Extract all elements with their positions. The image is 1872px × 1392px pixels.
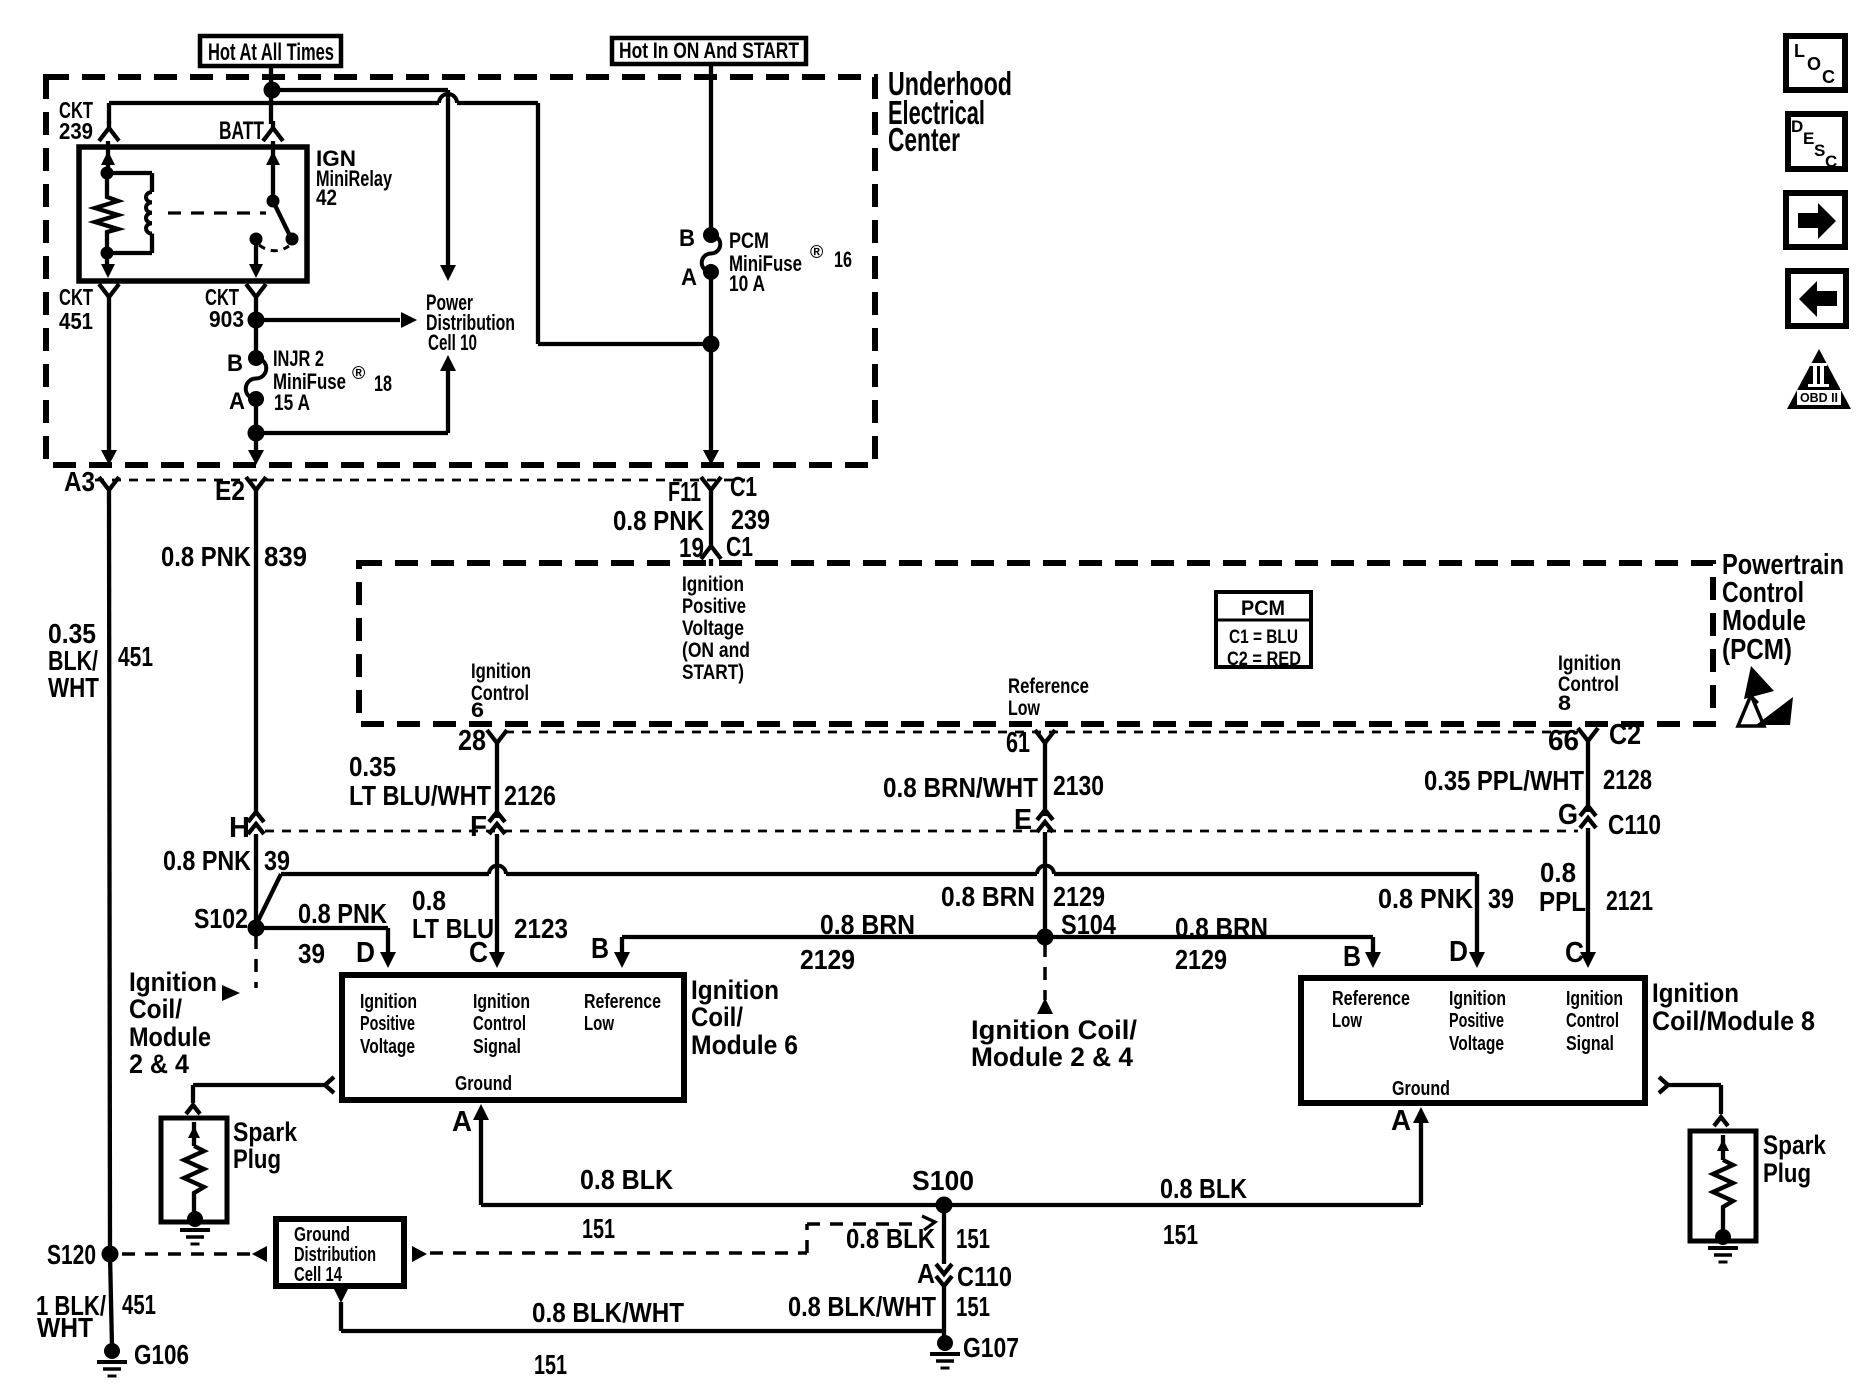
label: Ignition Coil/ Module 6 bbox=[691, 975, 798, 1060]
svg-text:B: B bbox=[1343, 941, 1361, 973]
connector: C110 pin H bbox=[229, 812, 264, 844]
wire: 0.8 PNK 39 (S102 to module 8 pin D) bbox=[256, 866, 1514, 969]
svg-text:LT BLU/WHT: LT BLU/WHT bbox=[349, 780, 491, 811]
wire: CKT 239 feed from PCM fuse node bbox=[109, 94, 706, 344]
icon: LOC bbox=[1786, 36, 1845, 90]
icon: DESC bbox=[1788, 114, 1845, 171]
svg-text:Ignition: Ignition bbox=[682, 573, 744, 596]
svg-text:Ignition: Ignition bbox=[1558, 652, 1621, 675]
wire: feed to power distribution (down arrow) bbox=[272, 90, 456, 281]
wire: 0.35 PPL/WHT 2128 bbox=[1424, 748, 1652, 812]
icon: ESD warning symbol bbox=[1738, 666, 1793, 726]
label: Ignition Coil/Module 8 bbox=[1652, 978, 1815, 1036]
wire: hot-at-all-times feed to BATT bbox=[269, 66, 273, 124]
connector: CKT 451 bbox=[59, 284, 119, 334]
svg-text:D: D bbox=[356, 937, 375, 969]
svg-text:C1 = BLU: C1 = BLU bbox=[1229, 627, 1298, 648]
svg-text:E: E bbox=[1803, 129, 1814, 148]
svg-text:F11: F11 bbox=[668, 476, 701, 507]
svg-text:0.8: 0.8 bbox=[412, 885, 446, 916]
svg-text:Positive: Positive bbox=[1449, 1010, 1504, 1032]
svg-text:C110: C110 bbox=[1608, 809, 1661, 840]
wire: S120 dashed to ground distribution bbox=[122, 1246, 267, 1262]
wire: CKT 903 to fuse bbox=[254, 304, 258, 352]
svg-text:PCM: PCM bbox=[729, 228, 769, 253]
svg-text:START): START) bbox=[682, 661, 744, 684]
svg-text:Low: Low bbox=[1008, 697, 1040, 720]
frame: Hot At All Times label box bbox=[200, 36, 341, 66]
junction: coil bottom node bbox=[101, 247, 114, 260]
svg-text:Hot In ON And START: Hot In ON And START bbox=[619, 38, 799, 63]
junction: PCM fuse output node bbox=[703, 336, 720, 353]
wire: ground bus A to A (0.8 BLK 151) bbox=[452, 1104, 1429, 1250]
connector: E2 bbox=[215, 475, 266, 506]
svg-text:451: 451 bbox=[59, 308, 93, 334]
svg-text:E: E bbox=[1014, 804, 1032, 836]
svg-text:Module: Module bbox=[129, 1022, 211, 1052]
connector: F11 C1 bbox=[668, 471, 757, 507]
stub: S102 to ignition coil module 2 and 4 bbox=[129, 936, 256, 1079]
svg-text:Control: Control bbox=[473, 1013, 526, 1035]
svg-text:G: G bbox=[1558, 799, 1578, 831]
icon: back arrow bbox=[1788, 271, 1846, 326]
connector: PCM pin 19 C1 bbox=[679, 531, 753, 566]
svg-text:Ignition: Ignition bbox=[129, 967, 217, 997]
svg-text:(ON and: (ON and bbox=[682, 639, 750, 662]
svg-text:451: 451 bbox=[122, 1289, 156, 1320]
svg-text:Ignition: Ignition bbox=[473, 991, 530, 1013]
svg-text:0.8 BLK: 0.8 BLK bbox=[1160, 1173, 1247, 1204]
wire: ground distribution dashed to S100 bbox=[412, 1216, 935, 1262]
ground: G107 bbox=[930, 1332, 1019, 1368]
underhood electrical center box bbox=[46, 77, 875, 465]
svg-text:G106: G106 bbox=[134, 1339, 189, 1370]
svg-text:Ignition: Ignition bbox=[1566, 988, 1623, 1010]
wire: INJR2 fuse output bbox=[248, 399, 264, 465]
svg-text:0.8 PNK: 0.8 PNK bbox=[1378, 883, 1473, 914]
svg-text:Coil/Module 8: Coil/Module 8 bbox=[1652, 1006, 1815, 1036]
svg-text:2128: 2128 bbox=[1603, 764, 1652, 795]
svg-text:Ground: Ground bbox=[294, 1224, 350, 1246]
svg-text:2 & 4: 2 & 4 bbox=[129, 1049, 189, 1079]
svg-text:O: O bbox=[1807, 54, 1821, 74]
wire: 0.8 BRN 2129 (E to S104) bbox=[941, 832, 1105, 934]
module 6 pin labels bbox=[360, 991, 661, 1095]
connector: CKT 903 bbox=[205, 284, 266, 332]
label: Reference Low bbox=[1008, 675, 1089, 720]
svg-text:Distribution: Distribution bbox=[294, 1244, 376, 1266]
svg-text:Low: Low bbox=[584, 1013, 614, 1035]
label: IGN MiniRelay 42 bbox=[316, 146, 393, 210]
svg-text:Ignition: Ignition bbox=[471, 660, 531, 683]
spark plug right bbox=[1690, 1130, 1827, 1262]
svg-text:A: A bbox=[1391, 1105, 1411, 1137]
svg-text:Low: Low bbox=[1332, 1010, 1362, 1032]
svg-text:Ignition Coil/: Ignition Coil/ bbox=[971, 1015, 1138, 1045]
junction: coil top node bbox=[101, 167, 114, 180]
svg-text:0.8 BLK/WHT: 0.8 BLK/WHT bbox=[788, 1291, 936, 1322]
svg-text:Signal: Signal bbox=[473, 1036, 521, 1058]
svg-text:S102: S102 bbox=[194, 903, 248, 934]
label: Power Distribution Cell 10 bbox=[426, 290, 515, 355]
svg-text:151: 151 bbox=[534, 1349, 567, 1380]
svg-text:151: 151 bbox=[956, 1223, 990, 1254]
wire: arrow to power distribution cell bbox=[256, 312, 417, 328]
wire: 0.8 BRN/WHT 2130 bbox=[883, 750, 1104, 816]
svg-text:151: 151 bbox=[582, 1213, 615, 1244]
svg-text:Reference: Reference bbox=[1332, 988, 1410, 1010]
icon: OBD II triangle bbox=[1787, 349, 1851, 409]
svg-text:8: 8 bbox=[1558, 692, 1571, 715]
svg-text:C: C bbox=[1822, 67, 1835, 87]
svg-text:Ignition: Ignition bbox=[360, 991, 417, 1013]
svg-text:28: 28 bbox=[458, 725, 486, 757]
label: Powertrain Control Module (PCM) bbox=[1722, 549, 1844, 666]
connector: C110 pin F bbox=[470, 811, 505, 843]
svg-text:Hot At All Times: Hot At All Times bbox=[208, 39, 334, 66]
svg-text:39: 39 bbox=[1488, 883, 1514, 914]
svg-text:Signal: Signal bbox=[1566, 1033, 1614, 1055]
svg-text:E2: E2 bbox=[215, 475, 245, 506]
svg-text:CKT: CKT bbox=[59, 284, 93, 310]
svg-text:OBD II: OBD II bbox=[1800, 390, 1838, 405]
svg-text:WHT: WHT bbox=[37, 1312, 93, 1343]
svg-text:Cell 14: Cell 14 bbox=[294, 1264, 343, 1286]
wire: hot-in-on feed to PCM fuse bbox=[709, 62, 713, 235]
svg-text:Reference: Reference bbox=[584, 991, 661, 1013]
wire: 0.35 LT BLU/WHT 2126 bbox=[349, 750, 556, 818]
frame: Ground Distribution Cell 14 box bbox=[276, 1219, 404, 1286]
stub: S104 to ignition coil module 2 and 4 bbox=[971, 944, 1138, 1072]
svg-text:Ignition: Ignition bbox=[691, 975, 779, 1005]
junction: S120 bbox=[47, 1239, 119, 1270]
svg-text:C: C bbox=[1565, 937, 1584, 969]
svg-text:A: A bbox=[917, 1258, 935, 1289]
wire: 0.8 PPL 2121 (G to module 8 pin C) bbox=[1539, 828, 1653, 969]
wire: module 6 ground to spark plug bbox=[186, 1077, 334, 1114]
svg-text:Positive: Positive bbox=[360, 1013, 415, 1035]
relay pin 903 (arrow down) bbox=[249, 239, 263, 278]
svg-text:C: C bbox=[469, 937, 488, 969]
junction: fuse output node bbox=[248, 425, 265, 442]
junction: battery feed node bbox=[264, 82, 281, 99]
svg-text:0.8 BRN: 0.8 BRN bbox=[820, 909, 915, 940]
junction: S100 bbox=[912, 1165, 974, 1214]
powertrain control module box bbox=[359, 563, 1713, 724]
svg-text:B: B bbox=[227, 350, 243, 377]
svg-text:16: 16 bbox=[834, 247, 852, 272]
svg-text:Module: Module bbox=[1722, 605, 1806, 637]
svg-text:G107: G107 bbox=[963, 1332, 1019, 1363]
label: Ignition Control 6 bbox=[471, 660, 531, 722]
svg-text:2123: 2123 bbox=[514, 913, 568, 944]
svg-text:0.8 BRN: 0.8 BRN bbox=[941, 881, 1035, 912]
svg-text:903: 903 bbox=[209, 306, 244, 332]
svg-text:®: ® bbox=[352, 363, 365, 383]
connector line: PCM pins (thin dashed) bbox=[505, 731, 1578, 734]
svg-text:A: A bbox=[681, 264, 697, 291]
svg-text:42: 42 bbox=[316, 185, 337, 210]
svg-text:151: 151 bbox=[956, 1291, 990, 1322]
svg-text:Reference: Reference bbox=[1008, 675, 1089, 698]
svg-text:2126: 2126 bbox=[504, 780, 556, 811]
svg-text:Center: Center bbox=[888, 121, 960, 158]
svg-text:2129: 2129 bbox=[1053, 881, 1105, 912]
wire: S100 to C110 pin A bbox=[846, 1205, 990, 1264]
label: Ignition Positive Voltage (ON and START) bbox=[682, 573, 750, 684]
svg-text:451: 451 bbox=[118, 641, 153, 672]
svg-text:S100: S100 bbox=[912, 1165, 974, 1196]
frame: Hot In ON And START label box bbox=[612, 38, 806, 64]
svg-text:0.8: 0.8 bbox=[1540, 857, 1576, 888]
connector: CKT 239 bbox=[59, 97, 119, 144]
svg-text:Control: Control bbox=[1566, 1010, 1619, 1032]
legend: PCM connector colors bbox=[1216, 592, 1311, 670]
svg-text:10 A: 10 A bbox=[729, 271, 765, 296]
wire: 0.8 BRN 2129 bus to B pins bbox=[591, 909, 1381, 975]
wire: PCM fuse output to F11 bbox=[703, 272, 719, 465]
svg-text:39: 39 bbox=[264, 845, 290, 876]
connector line: underhood outputs (thin dashed) bbox=[95, 479, 745, 482]
svg-text:A: A bbox=[452, 1106, 472, 1138]
label: Ignition Control 8 bbox=[1558, 652, 1621, 715]
svg-text:INJR 2: INJR 2 bbox=[273, 346, 324, 371]
svg-text:A3: A3 bbox=[64, 466, 95, 497]
svg-text:0.8 BRN/WHT: 0.8 BRN/WHT bbox=[883, 772, 1038, 803]
svg-text:Coil/: Coil/ bbox=[129, 994, 182, 1024]
spark plug left bbox=[161, 1117, 298, 1244]
fuse: INJR 2 MiniFuse 18 15A bbox=[227, 346, 392, 415]
svg-text:Ground: Ground bbox=[455, 1073, 512, 1095]
wire: 0.8 LT BLU 2123 (F to module 6 pin C) bbox=[412, 834, 568, 969]
svg-text:C2 = RED: C2 = RED bbox=[1227, 649, 1301, 670]
svg-text:C1: C1 bbox=[726, 531, 753, 562]
wire: 0.8 PNK 39 (S102 to module 6 pin D) bbox=[256, 898, 396, 969]
svg-text:S: S bbox=[1814, 141, 1825, 160]
svg-text:S120: S120 bbox=[47, 1239, 96, 1270]
svg-text:B: B bbox=[679, 225, 695, 252]
svg-text:Plug: Plug bbox=[233, 1144, 281, 1174]
svg-text:Plug: Plug bbox=[1763, 1158, 1811, 1188]
wire: module 8 ground to spark plug bbox=[1659, 1077, 1728, 1126]
relay coil winding bbox=[107, 173, 152, 253]
svg-text:Voltage: Voltage bbox=[360, 1036, 415, 1058]
svg-text:18: 18 bbox=[374, 371, 392, 396]
svg-text:0.8 BLK: 0.8 BLK bbox=[580, 1164, 673, 1195]
svg-text:®: ® bbox=[810, 242, 823, 262]
wire: 0.8 BLK/WHT 151 bottom run bbox=[334, 1289, 944, 1380]
svg-text:Spark: Spark bbox=[1763, 1130, 1827, 1160]
module: ignition coil/module 8 box bbox=[1301, 978, 1645, 1103]
svg-text:(PCM): (PCM) bbox=[1722, 634, 1792, 666]
connector: PCM pin 66 C2 bbox=[1548, 719, 1641, 757]
svg-text:239: 239 bbox=[59, 118, 93, 144]
svg-text:F: F bbox=[470, 811, 487, 843]
svg-text:839: 839 bbox=[264, 541, 307, 572]
wire: branch to power distribution (arrow up) bbox=[256, 355, 456, 433]
connector: PCM pin 61 bbox=[1006, 727, 1055, 759]
junction: S104 bbox=[1037, 909, 1117, 946]
connector: C110 pin E bbox=[1014, 804, 1053, 836]
svg-text:PCM: PCM bbox=[1241, 597, 1285, 620]
wire: 0.8 PNK 839 (E2 to H) bbox=[161, 497, 307, 812]
wire: 0.8 PNK 39 (H to S102) bbox=[163, 834, 290, 924]
connector: PCM pin 28 bbox=[458, 725, 507, 757]
svg-text:0.8 PNK: 0.8 PNK bbox=[161, 541, 251, 572]
svg-text:61: 61 bbox=[1006, 727, 1030, 759]
wire: 0.8 BLK/WHT 151 to G107 bbox=[788, 1286, 990, 1338]
svg-text:0.35: 0.35 bbox=[349, 751, 396, 782]
svg-text:2130: 2130 bbox=[1053, 770, 1104, 801]
svg-text:2129: 2129 bbox=[1175, 944, 1227, 975]
svg-text:C: C bbox=[1825, 152, 1837, 171]
svg-text:Spark: Spark bbox=[233, 1117, 298, 1147]
ground: G106 bbox=[97, 1339, 189, 1376]
svg-text:19: 19 bbox=[679, 532, 704, 563]
relay pin 239 (arrow up) bbox=[101, 141, 115, 173]
svg-text:PPL: PPL bbox=[1539, 886, 1586, 917]
icon: next arrow bbox=[1786, 193, 1845, 247]
relay pin 451 (arrow down) bbox=[101, 253, 115, 278]
relay switch bbox=[250, 141, 299, 251]
module: ignition coil/module 6 box bbox=[342, 975, 684, 1100]
svg-text:15 A: 15 A bbox=[274, 390, 310, 415]
module 8 pin labels bbox=[1332, 988, 1623, 1100]
svg-text:L: L bbox=[1794, 41, 1805, 61]
svg-text:Voltage: Voltage bbox=[1449, 1033, 1504, 1055]
svg-text:0.8 BLK: 0.8 BLK bbox=[846, 1223, 935, 1254]
svg-text:B: B bbox=[591, 933, 609, 965]
svg-text:2121: 2121 bbox=[1606, 885, 1653, 916]
svg-text:66: 66 bbox=[1548, 725, 1579, 757]
wire: S120 to G106 (1 BLK/WHT 451) bbox=[36, 1254, 156, 1347]
wire: A3 to S120 (0.35 BLK/WHT 451) bbox=[48, 497, 153, 1254]
svg-text:2129: 2129 bbox=[800, 944, 855, 975]
svg-text:Coil/: Coil/ bbox=[691, 1002, 743, 1032]
junction: S102 bbox=[194, 903, 265, 937]
wire: 0.8 PNK 239 (F11 to PCM pin 19) bbox=[613, 497, 770, 539]
svg-text:A: A bbox=[229, 388, 245, 415]
svg-text:Ignition: Ignition bbox=[1449, 988, 1506, 1010]
svg-text:D: D bbox=[1449, 936, 1468, 968]
junction: CKT 903 node bbox=[248, 312, 265, 329]
svg-text:Ignition: Ignition bbox=[1652, 978, 1739, 1008]
relay coil resistor bbox=[95, 173, 118, 253]
connector: C110 pin G bbox=[1558, 799, 1661, 840]
connector line: C110 (thin dashed) bbox=[265, 830, 1578, 833]
svg-text:Cell 10: Cell 10 bbox=[428, 330, 477, 355]
svg-text:C110: C110 bbox=[957, 1261, 1012, 1292]
svg-text:0.8 BRN: 0.8 BRN bbox=[1175, 912, 1268, 943]
svg-text:0.8 BLK/WHT: 0.8 BLK/WHT bbox=[532, 1297, 684, 1328]
svg-text:Voltage: Voltage bbox=[682, 617, 744, 640]
svg-text:Module 6: Module 6 bbox=[691, 1030, 798, 1060]
svg-text:BATT: BATT bbox=[219, 117, 264, 145]
svg-text:Module 2 & 4: Module 2 & 4 bbox=[971, 1042, 1133, 1072]
svg-text:Positive: Positive bbox=[682, 595, 746, 618]
relay internal dashed link bbox=[168, 211, 266, 214]
wire: CKT 451 to A3 bbox=[101, 304, 117, 465]
connector: A3 bbox=[64, 466, 119, 497]
svg-text:0.8 PNK: 0.8 PNK bbox=[298, 898, 387, 929]
svg-text:C2: C2 bbox=[1609, 719, 1641, 751]
label: Underhood Electrical Center bbox=[888, 65, 1012, 158]
svg-text:39: 39 bbox=[298, 938, 325, 969]
svg-text:0.8 PNK: 0.8 PNK bbox=[163, 845, 251, 876]
svg-text:0.35 PPL/WHT: 0.35 PPL/WHT bbox=[1424, 765, 1584, 796]
connector: C110 pin A bbox=[917, 1258, 1012, 1292]
relay: IGN MiniRelay 42 box bbox=[79, 147, 307, 281]
svg-text:D: D bbox=[1791, 117, 1803, 136]
svg-text:H: H bbox=[229, 812, 250, 844]
svg-text:Ground: Ground bbox=[1392, 1078, 1450, 1100]
svg-text:C1: C1 bbox=[730, 471, 757, 502]
svg-text:151: 151 bbox=[1163, 1219, 1198, 1250]
svg-text:6: 6 bbox=[471, 699, 484, 722]
fuse: PCM MiniFuse 16 10A bbox=[679, 225, 852, 296]
svg-text:WHT: WHT bbox=[48, 672, 99, 703]
connector: BATT bbox=[219, 117, 283, 145]
